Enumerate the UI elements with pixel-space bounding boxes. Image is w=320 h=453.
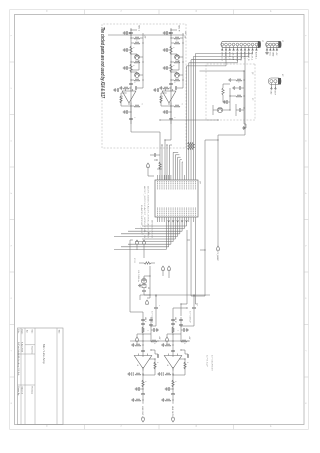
svg-text:C? 10uF/16V: C? 10uF/16V (211, 355, 213, 373)
svg-text:C? 100uF: C? 100uF (189, 311, 191, 323)
svg-text:MIC R: MIC R (178, 26, 180, 32)
svg-text:Number: Number (31, 347, 33, 354)
svg-text:EAPD SPDIF_OUT: EAPD SPDIF_OUT (140, 205, 143, 235)
svg-text:24.5MHz: 24.5MHz (137, 270, 139, 282)
svg-text:Sheet of: Sheet of (21, 387, 24, 395)
svg-text:LINE OUT R: LINE OUT R (171, 406, 173, 418)
svg-text:8-Apr-2005: 8-Apr-2005 (21, 342, 24, 353)
svg-text:X?: X? (281, 74, 283, 76)
svg-text:X1: X1 (147, 287, 149, 289)
svg-text:Drawn By:: Drawn By: (17, 387, 19, 397)
svg-text:PC_BEEP: PC_BEEP (216, 252, 218, 262)
svg-text:J?: J? (261, 40, 263, 42)
svg-text:C?: C? (251, 98, 253, 100)
svg-text:MIC L: MIC L (138, 26, 140, 32)
svg-text:File:: File: (17, 330, 19, 334)
svg-text:AGND_3: AGND_3 (228, 52, 231, 59)
svg-text:AGND_1: AGND_1 (255, 52, 258, 59)
svg-text:Q?: Q? (251, 72, 253, 74)
svg-text:LIN_R: LIN_R (174, 317, 176, 323)
svg-text:AC97_SDOUT AC97_SYNC AC97_: AC97_SDOUT AC97_SYNC AC97_RST (146, 186, 149, 238)
svg-text:LINE OUT L: LINE OUT L (141, 406, 143, 418)
svg-text:R? 1M: R? 1M (133, 258, 135, 263)
svg-text:AGND_2: AGND_2 (243, 52, 246, 59)
svg-text:J?: J? (281, 40, 283, 42)
svg-text:D:\Protel\Audio\MicLineAmp-X14: D:\Protel\Audio\MicLineAmp-X14.Sch (17, 342, 20, 375)
svg-text:Date:: Date: (21, 330, 24, 335)
svg-text:Mic / Line Amp: Mic / Line Amp (42, 344, 46, 364)
svg-text:C? 0.1uF: C? 0.1uF (206, 355, 208, 367)
svg-text:Revision: Revision (31, 387, 33, 395)
svg-text:GND: GND (272, 52, 274, 57)
